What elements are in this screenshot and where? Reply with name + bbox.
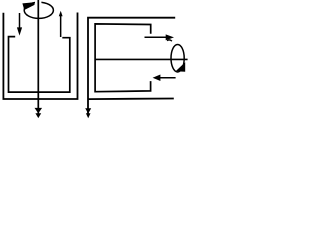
- right figure: outer vessel wall (top, left continuing into gravity arrow shaft): [88, 18, 175, 116]
- right figure: rotation ellipse arrowhead: [176, 62, 186, 72]
- right figure: gravity arrow double head at bottom left: [85, 108, 91, 113]
- left figure: axis bottom double arrowhead: [35, 108, 43, 114]
- left figure: rotation axis (vertical shaft): [37, 0, 39, 116]
- right figure: rotation ellipse (full loop): [171, 44, 184, 71]
- right figure: rotation axis (horizontal shaft): [95, 58, 188, 60]
- left figure: downward flow arrow (inside, left): [19, 13, 21, 28]
- left figure: outer vessel wall: [3, 13, 77, 100]
- right figure: rightward flow arrow (inside, top): [145, 36, 167, 38]
- left figure: rotation ellipse (full loop): [24, 2, 53, 18]
- left figure: rotation ellipse arrowhead: [22, 2, 34, 10]
- left figure: inner vessel wall with top rims: [9, 37, 70, 93]
- right figure: rotation ellipse tail flick: [167, 40, 172, 41]
- right figure: leftward flow arrow (inside, bottom): [160, 77, 176, 79]
- right figure: inner vessel wall with right hooks: [95, 24, 151, 92]
- right figure: outer vessel bottom wall: [88, 98, 174, 101]
- left figure: white break in ellipse top arc at axis crossing: [35, 1, 41, 5]
- left figure: upward flow arrow (inside, right): [60, 16, 62, 38]
